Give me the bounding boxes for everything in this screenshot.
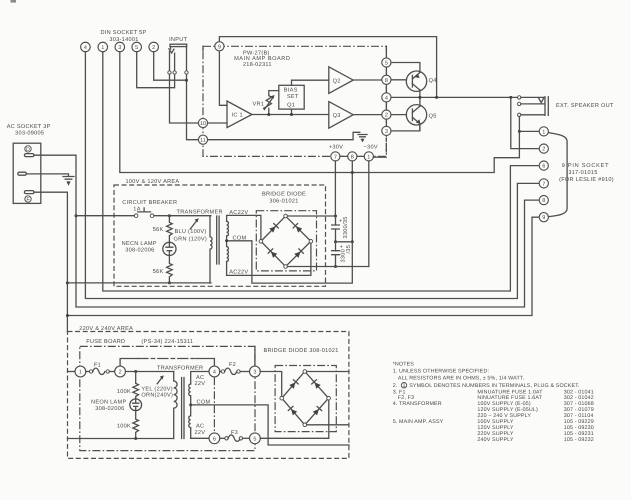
9-pin socket pin 8 xyxy=(539,196,548,205)
wire secondary top AC22V to bridge left corner xyxy=(227,215,261,239)
wire feedback from output to terminal 9 xyxy=(219,37,436,98)
junction terminal 8 / capacitor midpoint xyxy=(351,240,354,243)
svg-text:ORN(240V): ORN(240V) xyxy=(141,392,173,399)
100V and 120V area box xyxy=(114,185,326,286)
wire IC1 output to Q3 xyxy=(252,114,329,116)
svg-text:Q1: Q1 xyxy=(287,103,295,109)
junction Q4 emitter / Q5 collector / terminal 4 xyxy=(418,96,421,99)
transistor Q5 xyxy=(406,105,426,125)
fuse board inner dashed edge xyxy=(213,377,215,432)
svg-text:303-09005: 303-09005 xyxy=(15,131,44,137)
svg-text:56K: 56K xyxy=(153,269,164,275)
svg-text:2: 2 xyxy=(385,113,388,119)
svg-text:ALL RESISTORS ARE IN OHMS, ± 5: ALL RESISTORS ARE IN OHMS, ± 5%, 1/4 WAT… xyxy=(398,376,524,382)
bridge diode box xyxy=(256,211,316,271)
svg-text:9: 9 xyxy=(218,44,221,50)
svg-text:3: 3 xyxy=(385,129,388,135)
DIN pin 4 xyxy=(81,42,91,52)
terminal 10 xyxy=(198,118,207,127)
svg-text:218-02311: 218-02311 xyxy=(243,62,272,68)
svg-text:DIN SOCKET 5P: DIN SOCKET 5P xyxy=(100,30,146,36)
svg-text:11: 11 xyxy=(200,138,206,144)
transformer T2 core xyxy=(182,378,184,439)
svg-text:9 PIN SOCKET: 9 PIN SOCKET xyxy=(562,163,610,169)
junction VR1 / output line xyxy=(267,113,270,116)
svg-text:SYMBOL DENOTES NUMBERS IN TERM: SYMBOL DENOTES NUMBERS IN TERMINALS, PLU… xyxy=(409,383,579,389)
driver Q2 xyxy=(329,67,353,94)
wire secondary top to terminal 4 xyxy=(191,372,209,385)
wire terminal 1 to -30V rail xyxy=(368,161,370,267)
wire DIN pin 1 to 9-pin socket pin 6 (bus L1) xyxy=(103,52,539,291)
wire secondary bottom AC22V to bridge right corner xyxy=(227,243,311,275)
svg-text:BIAS: BIAS xyxy=(284,88,298,94)
svg-text:105 - 09232: 105 - 09232 xyxy=(564,437,594,443)
wire bridge + output to +30V rail xyxy=(287,215,335,217)
junction divider / neutral return xyxy=(168,281,171,284)
svg-text:5. MAIN AMP. ASSY: 5. MAIN AMP. ASSY xyxy=(393,419,444,425)
wire neutral bottom to transformer primary xyxy=(68,438,174,440)
svg-text:3300/35: 3300/35 xyxy=(342,216,349,238)
junction input sleeve / DIN 2 xyxy=(185,79,188,82)
bridge rectifier diamond (220V) xyxy=(283,373,327,424)
input jack contact 2 xyxy=(173,71,176,74)
svg-text:2: 2 xyxy=(152,45,155,51)
diode D2 top-right xyxy=(296,226,302,232)
terminal 11 xyxy=(198,135,207,144)
wire AC neutral F down to 220V area and 9-pin socket pin 9 (bus L4) xyxy=(34,192,67,331)
svg-text:IC 1: IC 1 xyxy=(232,113,243,119)
wire AC live D to breaker feed and 9-pin socket pin 8 (bus L3) xyxy=(34,155,539,307)
9-pin socket bracket xyxy=(549,133,567,217)
wire jack sleeve to 9-pin 1 junction xyxy=(518,117,520,132)
svg-text:306-01021: 306-01021 xyxy=(269,199,298,205)
svg-text:4: 4 xyxy=(84,45,87,51)
bridge rectifier diamond xyxy=(262,217,309,265)
wire input sleeve down to amp terminal 11 xyxy=(187,74,199,140)
junction -30V rail / cap bottom xyxy=(334,265,337,268)
svg-text:7: 7 xyxy=(334,154,337,160)
wire Q3 output to terminal 2 xyxy=(353,114,382,116)
wire area edge to terminal 1 xyxy=(68,371,76,373)
wire DIN pin 2 to input jack sleeve junction xyxy=(154,52,187,80)
DIN pin 2 xyxy=(149,42,159,52)
svg-text:1: 1 xyxy=(367,154,370,160)
wire terminal 8 to Q4 base xyxy=(391,79,407,81)
svg-text:100K: 100K xyxy=(117,424,131,430)
terminal 2 xyxy=(382,110,391,119)
svg-text:AC22V: AC22V xyxy=(229,270,248,276)
svg-text:1: 1 xyxy=(402,383,405,389)
svg-text:−30V: −30V xyxy=(364,145,378,151)
svg-text:VR1: VR1 xyxy=(253,101,265,107)
chassis ground symbol xyxy=(63,177,74,180)
wire neutral return to transformer primary xyxy=(67,282,211,284)
svg-text:6: 6 xyxy=(542,164,545,170)
svg-text:GRN (120V): GRN (120V) xyxy=(174,235,208,242)
svg-text:Q5: Q5 xyxy=(429,113,437,119)
svg-text:22V: 22V xyxy=(195,430,206,436)
svg-text:2.: 2. xyxy=(393,383,398,389)
junction output / 9-pin 2 branch xyxy=(509,96,512,99)
diode D8 bottom-right xyxy=(313,409,319,415)
DIN pin 5 xyxy=(132,42,142,52)
svg-text:*NOTES: *NOTES xyxy=(393,361,415,367)
terminal 9 xyxy=(215,42,224,51)
9-pin socket pin 7 xyxy=(539,179,548,188)
wire terminal 4 to output junction xyxy=(391,96,437,98)
junction main line / 56K divider xyxy=(168,214,171,217)
ext speaker jack body xyxy=(545,97,548,116)
svg-text:308-02006: 308-02006 xyxy=(125,247,154,253)
wire jack tip line xyxy=(521,96,544,98)
svg-text:AC: AC xyxy=(196,375,204,381)
terminal 5 xyxy=(382,58,391,67)
svg-text:AC22V: AC22V xyxy=(229,210,248,216)
svg-text:5: 5 xyxy=(253,436,256,442)
svg-text:AC: AC xyxy=(196,424,204,430)
wire DIN pin 4 to 9-pin socket pin 7 (bus L2) xyxy=(85,52,539,299)
wire terminal 2 to terminal 4 via top connector xyxy=(120,359,138,367)
fuse board terminal 4 xyxy=(209,366,220,377)
svg-text:EXT. SPEAKER OUT: EXT. SPEAKER OUT xyxy=(556,103,614,109)
junction feedback / output xyxy=(435,96,438,99)
driver Q3 xyxy=(329,102,353,129)
svg-text:9: 9 xyxy=(542,215,545,221)
wire output to 9-pin socket pin 2 xyxy=(511,97,539,148)
junction COM center tap (220V) xyxy=(189,403,192,406)
diode D3 bottom-left xyxy=(271,252,277,258)
svg-text:100K: 100K xyxy=(117,389,131,395)
capacitor 3300/35 lower xyxy=(335,242,337,267)
svg-text:F2: F2 xyxy=(229,362,236,368)
input jack contact 3 xyxy=(185,71,188,74)
diode D4 bottom-right xyxy=(294,252,300,258)
wire terminal 7 to +30V rail xyxy=(334,161,336,216)
wire terminal 3 to Q5 emitter xyxy=(391,125,420,131)
terminal 7 (bottom +30V) xyxy=(331,152,340,161)
wire terminal 10 to IC1 xyxy=(208,122,227,124)
svg-text:220V & 240V AREA: 220V & 240V AREA xyxy=(79,326,133,332)
wire terminal 8 to ground rail / COM xyxy=(227,161,353,283)
wire DIN pin 5 to input jack middle contact xyxy=(137,52,175,88)
svg-text:2: 2 xyxy=(119,370,122,376)
op-amp IC1 xyxy=(227,101,252,128)
9-pin socket pin 1 xyxy=(539,127,548,136)
diode D1 top-left xyxy=(269,226,275,232)
transformer T1 primary xyxy=(210,216,212,283)
terminal 3 xyxy=(382,126,391,135)
wire DIN pin 3 ground net to 9-pin socket pin 1 junction xyxy=(120,52,520,173)
wire bias box to Q2 input xyxy=(292,80,329,85)
svg-text:BRIDGE DIODE: BRIDGE DIODE xyxy=(262,192,306,198)
svg-text:5: 5 xyxy=(135,45,138,51)
wire main 100V line breaker to transformer xyxy=(76,215,211,217)
wire input tip to amp terminal 10 xyxy=(170,74,199,123)
svg-text:100V & 120V AREA: 100V & 120V AREA xyxy=(126,179,180,185)
svg-text:2: 2 xyxy=(542,147,545,153)
fuse board terminal 6 xyxy=(209,433,220,444)
border segments between bottom terminals xyxy=(203,46,364,156)
9-pin socket pin 9 xyxy=(539,213,548,222)
wire terminal 11 to signal ground xyxy=(208,132,360,139)
svg-text:3: 3 xyxy=(253,370,256,376)
terminal 8 (right) xyxy=(382,75,391,84)
bias set Q1 box xyxy=(279,85,304,109)
svg-text:56K: 56K xyxy=(153,227,164,233)
transformer T1 secondary xyxy=(227,221,229,261)
wire output to speaker jack xyxy=(437,96,518,98)
svg-text:YEL (220V): YEL (220V) xyxy=(141,386,173,393)
DIN pin 1 xyxy=(98,42,108,52)
junction terminal 8 / DIN3 ground line xyxy=(351,171,354,174)
wire bridge + to area edge xyxy=(307,371,349,373)
svg-text:8: 8 xyxy=(542,198,545,204)
junction neutral / 100V return wire xyxy=(66,281,69,284)
fuse board box xyxy=(80,346,255,450)
svg-text:BLU (100V): BLU (100V) xyxy=(175,228,207,235)
svg-text:10: 10 xyxy=(200,121,206,127)
ext speaker jack tip mark xyxy=(539,98,544,103)
svg-text:(FOR LESLIE #910): (FOR LESLIE #910) xyxy=(559,176,614,183)
svg-text:+30V: +30V xyxy=(329,145,343,151)
transformer T1 core xyxy=(217,216,219,264)
ext speaker jack contacts xyxy=(518,96,521,99)
svg-text:(PS-34) 224-15311: (PS-34) 224-15311 xyxy=(141,338,193,345)
AC socket terminal D xyxy=(25,146,31,152)
svg-text:5: 5 xyxy=(385,61,388,67)
junction 100K divider top xyxy=(134,370,137,373)
svg-text:303-14001: 303-14001 xyxy=(109,37,138,43)
border segments between right-edge terminals xyxy=(385,46,387,126)
wire terminal 5 to Q4 collector xyxy=(391,63,420,72)
svg-text:1: 1 xyxy=(101,45,104,51)
junction capacitor midpoint xyxy=(334,240,337,243)
main amp board border xyxy=(203,46,386,156)
wire terminal 9 to IC1 input xyxy=(219,51,227,105)
transformer T2 primary xyxy=(174,372,177,439)
wire terminal 2 to transformer primary xyxy=(126,371,174,373)
fuse board terminal 1 xyxy=(75,366,86,377)
svg-text:CIRCUIT BREAKER: CIRCUIT BREAKER xyxy=(122,200,177,206)
svg-text:22V: 22V xyxy=(195,381,206,387)
wire terminal 2 to Q5 base xyxy=(391,114,407,116)
arrow to transformer (220V) xyxy=(157,378,162,384)
diode D5 top-left xyxy=(289,382,295,388)
9-pin socket pin 6 xyxy=(539,161,548,170)
wire terminal 1 hook to terminal 3 xyxy=(373,156,386,158)
svg-text:NEON LAMP: NEON LAMP xyxy=(91,400,126,406)
9-pin socket pin 2 xyxy=(539,144,548,153)
wire jack ring line xyxy=(521,103,544,105)
diode D6 top-right xyxy=(315,382,321,388)
junction +30V rail / cap xyxy=(334,215,337,218)
svg-text:4: 4 xyxy=(385,95,388,101)
svg-text:1. UNLESS OTHERWISE SPECIFIED:: 1. UNLESS OTHERWISE SPECIFIED: xyxy=(393,369,489,375)
svg-text:F1: F1 xyxy=(94,362,101,368)
wire capacitor midpoint to terminal 8 ground xyxy=(336,241,353,243)
ground symbol (amp board) xyxy=(358,135,367,137)
circuit breaker 1A xyxy=(134,214,138,218)
svg-text:FUSE BOARD: FUSE BOARD xyxy=(86,339,125,345)
AC socket middle terminal xyxy=(18,172,27,175)
junction live / 100V main wire xyxy=(75,214,78,217)
terminal 8 (bottom gnd) xyxy=(348,152,357,161)
bridge diode box (220V) xyxy=(275,366,336,432)
wire bridge - output to -30V rail xyxy=(287,266,368,268)
svg-text:AC SOCKET 3P: AC SOCKET 3P xyxy=(7,124,51,130)
input jack tip prong xyxy=(169,47,174,53)
junction neutral / bus L4 xyxy=(66,314,69,317)
wire terminal 3 to bridge left corner xyxy=(260,372,281,397)
junction 9-pin 1 / sleeve / ground xyxy=(518,130,521,133)
svg-text:TRANSFORMER: TRANSFORMER xyxy=(177,209,223,215)
wire bias box to output line xyxy=(291,109,293,114)
svg-text:/35: /35 xyxy=(345,245,352,254)
diode D7 bottom-left xyxy=(291,409,297,415)
svg-text:8: 8 xyxy=(385,78,388,84)
wire junction to 9-pin socket pin 1 xyxy=(519,130,539,132)
input jack tip lines to contacts xyxy=(170,52,175,72)
svg-text:4. TRANSFORMER: 4. TRANSFORMER xyxy=(393,401,442,407)
svg-text:+: + xyxy=(339,219,343,225)
transformer T2 secondary xyxy=(189,384,191,438)
scan artifact top-left xyxy=(11,0,17,3)
svg-text:8: 8 xyxy=(351,154,354,160)
input jack sleeve line xyxy=(186,47,188,71)
svg-text:6: 6 xyxy=(213,436,216,442)
fuse board terminal 2 xyxy=(115,366,126,377)
svg-text:1: 1 xyxy=(542,129,545,135)
arrow to transformer xyxy=(191,221,197,229)
svg-text:BRIDGE DIODE 308-01021: BRIDGE DIODE 308-01021 xyxy=(264,348,339,354)
svg-text:7: 7 xyxy=(542,181,545,187)
AC socket body xyxy=(13,143,41,203)
terminal 4 xyxy=(382,93,391,102)
input jack body bar xyxy=(170,44,187,46)
svg-text:240V SUPPLY: 240V SUPPLY xyxy=(477,437,513,443)
svg-text:1: 1 xyxy=(79,370,82,376)
wire terminal 5 to bridge right corner xyxy=(260,400,329,438)
svg-text:SET: SET xyxy=(287,94,299,100)
fuse board terminal 3 xyxy=(250,366,261,377)
wire bridge - to area edge xyxy=(307,424,349,426)
wire secondary bottom to terminal 6 xyxy=(191,437,209,439)
input jack contact 1 xyxy=(168,71,171,74)
svg-text:D: D xyxy=(26,147,30,153)
junction bias / output line xyxy=(290,113,293,116)
fuse board terminal 5 xyxy=(250,433,261,444)
wire Q2 output to terminal 8 xyxy=(353,79,382,81)
svg-text:TRANSFORMER: TRANSFORMER xyxy=(157,366,203,372)
capacitor 3300/35 upper xyxy=(335,216,337,242)
fuse board right edge riser to terminal 3 xyxy=(254,346,256,366)
svg-text:4: 4 xyxy=(213,370,216,376)
wire COM to area edge xyxy=(191,405,349,445)
svg-text:308-02006: 308-02006 xyxy=(95,406,124,412)
AC socket terminal F xyxy=(24,191,34,194)
wire jack sleeve line xyxy=(521,114,544,116)
svg-text:317-01015: 317-01015 xyxy=(568,170,597,176)
svg-text:Q2: Q2 xyxy=(333,78,341,84)
DIN pin 3 xyxy=(115,42,125,52)
svg-text:NECN LAMP: NECN LAMP xyxy=(122,241,157,247)
svg-text:INPUT: INPUT xyxy=(169,37,187,43)
svg-text:3: 3 xyxy=(118,45,121,51)
terminal 1 (bottom -30V) xyxy=(364,152,373,161)
svg-text:Q3: Q3 xyxy=(333,113,341,119)
220V and 240V area box xyxy=(68,332,349,459)
junction 100K divider bottom xyxy=(134,437,137,440)
junction COM center tap xyxy=(225,239,228,242)
wire AC middle pin to chassis ground xyxy=(26,174,68,176)
svg-text:Q4: Q4 xyxy=(429,78,437,84)
svg-text:COM: COM xyxy=(233,236,247,242)
transistor Q4 xyxy=(406,71,426,91)
